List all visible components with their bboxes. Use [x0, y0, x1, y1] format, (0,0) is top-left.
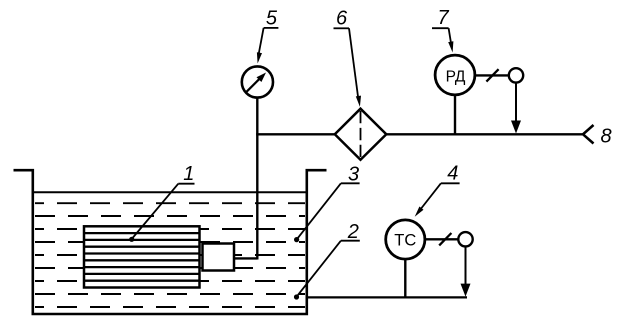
main air line (left of filter)	[256, 133, 336, 135]
svg-text:3: 3	[348, 164, 359, 186]
ТС sensor circle 4	[386, 220, 425, 259]
svg-text:ТС: ТС	[394, 232, 416, 250]
regulator РД circle 7	[435, 55, 475, 95]
РД to valve link	[475, 74, 510, 76]
slash on РД link	[486, 69, 498, 81]
ТС to valve link	[425, 238, 460, 240]
liquid level line	[34, 191, 306, 193]
main air line (right of filter)	[385, 133, 583, 135]
impulse line arrow down to main line	[515, 83, 517, 123]
pipe stub from junction box	[234, 257, 257, 259]
svg-text:РД: РД	[446, 69, 466, 86]
pressure gauge 5	[242, 66, 273, 97]
svg-text:4: 4	[447, 163, 458, 185]
gauge riser pipe	[256, 97, 258, 260]
svg-text:5: 5	[266, 7, 278, 29]
regulator РД riser	[454, 95, 456, 134]
liquid dashes	[35, 203, 305, 307]
svg-text:8: 8	[600, 125, 611, 147]
svg-text:2: 2	[347, 221, 359, 243]
valve small circle (РД side)	[509, 68, 523, 82]
heater plates	[85, 233, 200, 281]
svg-text:6: 6	[336, 8, 348, 30]
slash on ТС link	[439, 233, 451, 245]
discharge fork 8	[583, 125, 594, 144]
filter 6 (diamond)	[335, 109, 387, 160]
gauge needle	[247, 78, 261, 92]
junction box on heater	[203, 244, 235, 271]
heater device 1	[84, 226, 200, 287]
svg-text:1: 1	[183, 163, 194, 185]
ТС sensor stem	[404, 259, 406, 297]
valve small circle (ТС side)	[458, 232, 472, 246]
drain pipe 2	[307, 296, 467, 298]
impulse arrow down to drain pipe	[465, 247, 467, 286]
tank (bath) outline with rims	[14, 170, 327, 314]
svg-text:7: 7	[437, 7, 449, 29]
filter center dashed line	[360, 111, 362, 157]
